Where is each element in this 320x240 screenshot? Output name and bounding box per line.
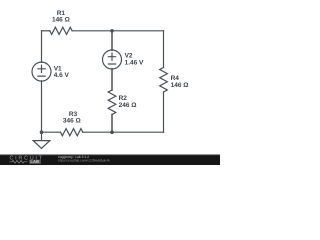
wire bottom-left segment	[42, 131, 61, 133]
resistor R2	[108, 90, 116, 115]
wire top-left segment	[42, 30, 50, 32]
resistor R3	[61, 129, 83, 136]
node junction bottom (R2 branch)	[110, 130, 114, 134]
svg-text:1.46 V: 1.46 V	[125, 60, 144, 67]
wire bottom-right segment	[83, 131, 164, 133]
wire middle branch upper	[111, 31, 113, 51]
CircuitLab logo resistor zigzag	[10, 160, 28, 163]
wire left rail upper	[41, 31, 43, 63]
resistor R1	[50, 27, 72, 34]
node junction top (V2 branch)	[110, 29, 114, 33]
voltage source V2	[103, 50, 122, 69]
wire top-right segment	[72, 30, 163, 32]
wire right rail upper	[163, 31, 165, 68]
svg-text:246 Ω: 246 Ω	[119, 102, 137, 109]
svg-text:346 Ω: 346 Ω	[63, 117, 81, 124]
voltage source V1	[32, 62, 51, 81]
svg-text:146 Ω: 146 Ω	[52, 16, 70, 23]
ground lead	[41, 132, 43, 140]
CircuitLab logo LAB box	[29, 160, 41, 164]
svg-text:LAB: LAB	[30, 159, 39, 164]
svg-text:146 Ω: 146 Ω	[171, 82, 189, 89]
wire left rail lower	[41, 81, 43, 132]
ground	[33, 141, 50, 149]
wire between V2 and R2	[111, 69, 113, 90]
footer bar	[0, 154, 220, 165]
wire below R2	[111, 115, 113, 133]
node junction bottom-left	[40, 130, 44, 134]
svg-text:4.6 V: 4.6 V	[54, 72, 70, 79]
resistor R4	[160, 68, 168, 93]
svg-text:http://circuitlab.com/c/23964d: http://circuitlab.com/c/23964dbdc4h	[58, 159, 110, 163]
wire right rail lower	[163, 92, 165, 132]
